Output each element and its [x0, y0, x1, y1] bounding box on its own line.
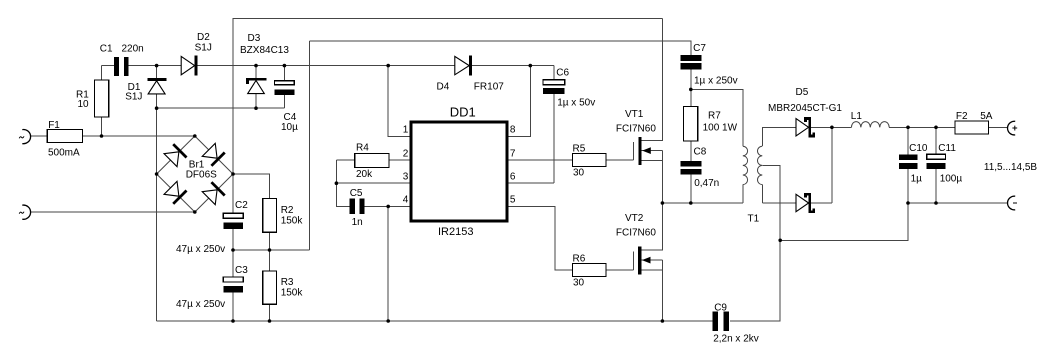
svg-text:4: 4: [403, 195, 409, 206]
svg-text:R6: R6: [573, 253, 586, 264]
svg-text:47µ x 250v: 47µ x 250v: [176, 244, 225, 255]
svg-text:R4: R4: [356, 143, 369, 154]
svg-text:100 1W: 100 1W: [703, 122, 738, 133]
svg-text:BZX84C13: BZX84C13: [240, 45, 289, 56]
svg-text:11,5...14,5B: 11,5...14,5B: [984, 162, 1038, 173]
svg-text:500mA: 500mA: [48, 148, 80, 159]
svg-text:D3: D3: [248, 33, 261, 44]
svg-text:1µ x 250v: 1µ x 250v: [694, 76, 738, 87]
svg-text:47µ x 250v: 47µ x 250v: [176, 299, 225, 310]
svg-text:5A: 5A: [980, 111, 993, 122]
svg-text:FCI7N60: FCI7N60: [616, 123, 656, 134]
svg-text:5: 5: [510, 195, 516, 206]
svg-text:C7: C7: [693, 43, 706, 54]
svg-text:DD1: DD1: [450, 104, 476, 119]
svg-text:S1J: S1J: [195, 43, 212, 54]
svg-text:F1: F1: [48, 120, 60, 131]
svg-text:D4: D4: [437, 82, 450, 93]
svg-text:C8: C8: [694, 146, 707, 157]
svg-text:L1: L1: [851, 111, 863, 122]
svg-text:C6: C6: [556, 68, 569, 79]
svg-text:VT1: VT1: [625, 109, 644, 120]
svg-text:C11: C11: [938, 143, 956, 154]
svg-text:D2: D2: [197, 32, 210, 43]
svg-text:10µ: 10µ: [281, 122, 298, 133]
svg-text:3: 3: [403, 171, 409, 182]
svg-text:IR2153: IR2153: [438, 226, 473, 238]
svg-text:150k: 150k: [281, 288, 304, 299]
svg-text:100µ: 100µ: [940, 173, 963, 184]
svg-text:30: 30: [573, 277, 585, 288]
svg-text:DF06S: DF06S: [186, 170, 217, 181]
svg-text:MBR2045CT-G1: MBR2045CT-G1: [768, 103, 842, 114]
svg-text:20k: 20k: [356, 169, 373, 180]
svg-text:10: 10: [78, 99, 90, 110]
svg-text:8: 8: [510, 125, 516, 136]
svg-text:R2: R2: [281, 205, 294, 216]
svg-text:150k: 150k: [281, 216, 304, 227]
svg-text:C9: C9: [714, 302, 727, 313]
svg-text:C5: C5: [350, 188, 363, 199]
svg-text:D5: D5: [796, 87, 809, 98]
svg-text:S1J: S1J: [125, 91, 142, 102]
svg-text:0,47n: 0,47n: [694, 178, 719, 189]
svg-text:30: 30: [573, 167, 585, 178]
svg-text:1: 1: [403, 125, 409, 136]
svg-text:R5: R5: [573, 143, 586, 154]
svg-text:7: 7: [510, 148, 516, 159]
svg-text:C2: C2: [235, 200, 248, 211]
svg-text:T1: T1: [748, 213, 760, 224]
svg-text:1n: 1n: [352, 217, 363, 228]
svg-text:F2: F2: [956, 111, 968, 122]
svg-text:220n: 220n: [122, 44, 144, 55]
svg-text:FR107: FR107: [474, 82, 504, 93]
svg-text:VT2: VT2: [625, 213, 644, 224]
svg-text:C1: C1: [100, 44, 113, 55]
svg-text:FCI7N60: FCI7N60: [616, 227, 656, 238]
svg-text:R3: R3: [281, 277, 294, 288]
svg-text:C10: C10: [909, 143, 928, 154]
svg-text:2,2n x 2kv: 2,2n x 2kv: [713, 334, 759, 345]
svg-text:2: 2: [403, 148, 409, 159]
svg-text:6: 6: [510, 171, 516, 182]
svg-text:1µ x 50v: 1µ x 50v: [557, 97, 595, 108]
svg-text:1µ: 1µ: [911, 173, 923, 184]
svg-text:R7: R7: [708, 110, 721, 121]
svg-text:C3: C3: [235, 265, 248, 276]
